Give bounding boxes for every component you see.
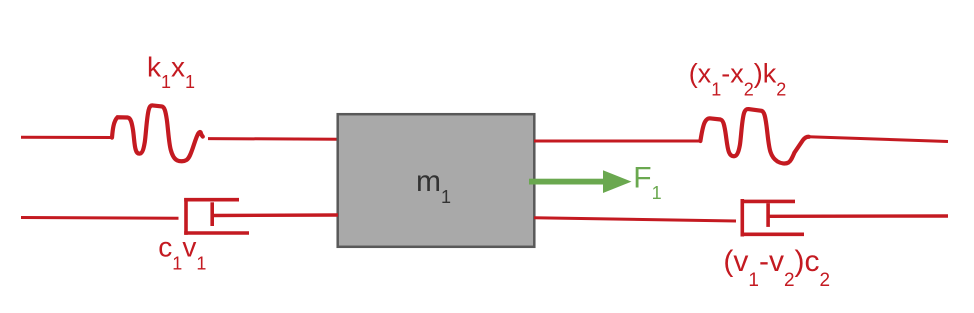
wire left-bottom lead bbox=[21, 216, 179, 220]
wire mass to spring k2 bbox=[534, 140, 701, 143]
wire spring k1 to mass bbox=[208, 137, 338, 141]
force arrow F1 bbox=[529, 170, 632, 193]
damper c2 bbox=[741, 199, 805, 237]
spring k2 bbox=[700, 109, 809, 163]
damper c1 bbox=[184, 198, 249, 235]
spring k1 bbox=[112, 105, 203, 161]
wire left-top lead bbox=[21, 136, 113, 139]
wire spring k2 to right edge bbox=[809, 137, 949, 142]
wire mass to damper c2 bbox=[534, 218, 736, 221]
damper c2 rod to right edge bbox=[768, 214, 948, 218]
damper c1 rod to mass bbox=[212, 213, 338, 217]
mass m1 bbox=[338, 114, 535, 247]
